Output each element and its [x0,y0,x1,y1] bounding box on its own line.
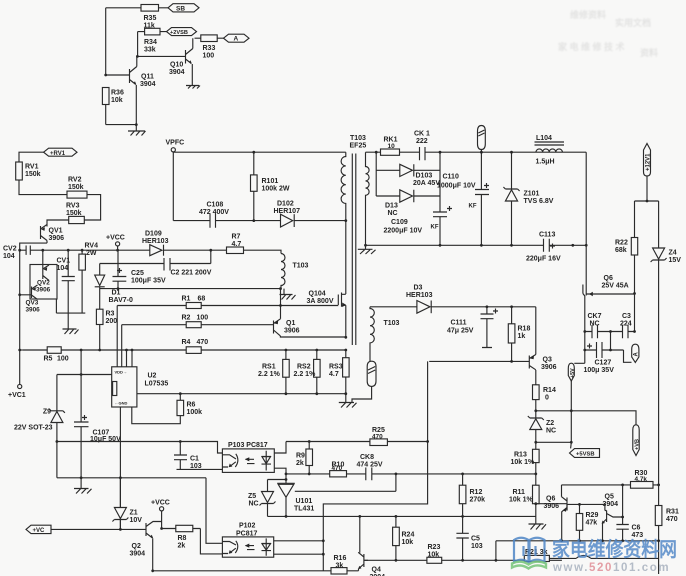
svg-text:P102: P102 [239,523,255,530]
svg-text:+VC: +VC [33,528,46,534]
zener Z2 [535,411,537,418]
box QV2/QV3 outline [30,265,57,300]
resistor R101 [253,152,255,220]
capacitor CV2 [20,246,43,255]
svg-text:+12V1: +12V1 [646,153,652,171]
svg-text:10k: 10k [402,539,414,546]
svg-text:R34: R34 [144,39,157,46]
svg-text:Q11: Q11 [141,74,154,81]
svg-text:Q10: Q10 [170,62,183,69]
svg-text:473: 473 [632,532,644,539]
svg-text:EF25: EF25 [350,143,367,150]
transistor Q4 [358,552,368,568]
svg-text:CV2: CV2 [3,246,17,253]
svg-text:10k 1%: 10k 1% [511,459,536,466]
svg-text:KF: KF [431,225,439,231]
svg-text:+5V: +5V [570,368,576,378]
svg-text:470: 470 [666,516,678,523]
capacitor CV1 [62,251,75,313]
svg-text:HER103: HER103 [406,292,433,299]
svg-text:VDD→: VDD→ [115,370,127,375]
wire Q104 gate to R1 row [281,305,339,307]
svg-text:Q1: Q1 [286,320,295,327]
resistor RV1 [16,162,23,180]
svg-text:D103: D103 [416,173,433,180]
resistor R22 [634,201,636,294]
capacitor C6 [616,525,628,541]
node +RV1 [44,148,77,156]
svg-text:C110: C110 [443,174,459,181]
winding T103 aux [281,254,285,289]
wire R30 row [562,484,659,486]
mosfet Q104 [338,221,346,338]
ground Q11 [128,131,146,136]
svg-text:R7: R7 [232,234,241,241]
resistor R35 [141,5,159,12]
svg-text:270k: 270k [470,497,486,504]
svg-text:C3: C3 [622,313,631,320]
ground C107 [80,478,82,488]
svg-text:C2 221 200V: C2 221 200V [171,270,212,277]
ground R11 [529,524,547,530]
svg-text:R18: R18 [518,326,531,333]
svg-text:47μ 25V: 47μ 25V [447,328,474,335]
svg-text:3k: 3k [336,563,344,570]
capacitor CK7 [585,325,611,338]
capacitor C25 [113,250,127,288]
svg-text:R6: R6 [187,402,196,409]
resistor R7 [211,250,281,253]
resistor R16 [153,570,359,572]
svg-text:R31: R31 [666,509,679,516]
core T103 [352,154,356,346]
svg-text:1k: 1k [518,333,526,340]
mosfet Q6 [583,245,635,295]
ground Q10 [186,86,200,89]
inductor L104 [536,149,562,152]
wire RV2 to RV3 [84,195,100,220]
wire QV box bottom [56,299,85,313]
svg-text:Z1: Z1 [130,510,138,517]
svg-text:R1: R1 [182,296,191,303]
svg-text:QV1: QV1 [49,228,63,235]
svg-text:Q6: Q6 [604,275,613,282]
svg-text:BAV7-0: BAV7-0 [109,297,133,304]
wire top-left vertical rail [105,8,107,75]
svg-text:22V SOT-23: 22V SOT-23 [14,425,53,432]
capacitor C2 [164,250,211,270]
svg-text:SB: SB [176,5,185,12]
wire QV1 to QV2 [42,250,44,266]
svg-text:3906: 3906 [284,328,300,335]
svg-text:RS2: RS2 [297,364,311,371]
wire R8 to P102 [200,529,222,554]
svg-text:R29: R29 [586,512,599,519]
wire RV1 to RV2 [19,180,67,195]
svg-text:33k: 33k [144,47,156,54]
node +VC1 terminal [18,384,22,388]
svg-text:1000μF 10V: 1000μF 10V [437,183,476,190]
wire R2 to U2 [121,325,123,367]
diode D102 [281,214,293,227]
svg-text:4.7: 4.7 [329,371,339,378]
resistor RV3 [69,216,85,223]
resistor R1 [117,305,280,307]
wire R21 row right [549,555,658,558]
svg-text:C108: C108 [207,202,224,209]
svg-text:4.7: 4.7 [232,241,242,248]
svg-text:KF: KF [469,204,477,210]
svg-text:NC: NC [546,428,556,435]
wire Q1 emitter to Q104 source [280,336,345,337]
transistor QV3 [20,285,38,300]
resistor R21 [495,541,497,561]
svg-text:2k: 2k [296,460,304,467]
node A [224,34,250,42]
resistor R2 [122,324,274,326]
wire U2 bottom pin left [119,407,121,529]
svg-text:104: 104 [3,253,15,260]
wire Q6 gate down [583,294,585,332]
winding T103 lower secondary [370,307,374,361]
svg-text:2k: 2k [178,543,186,550]
wire U2 pins to rail [127,350,133,367]
wire ground rail y478 [57,477,206,479]
wire C2 row to D1 [100,264,164,276]
capacitor C108 [210,214,216,228]
transistor Q5 [567,504,605,510]
resistor R30 [631,482,654,489]
svg-text:10k: 10k [428,552,440,559]
wire Q4 base row [364,559,562,561]
svg-text:+VB: +VB [635,439,641,450]
svg-text:www.520101.com: www.520101.com [552,562,670,574]
svg-text:100: 100 [57,356,69,363]
transistor Q10 [186,38,193,63]
svg-text:25V 45A: 25V 45A [602,283,629,290]
wire P102 right pins [274,541,324,554]
svg-text:D102: D102 [277,201,294,208]
svg-text:C1: C1 [190,456,199,463]
svg-text:Z9: Z9 [43,409,51,416]
svg-text:1.5μH: 1.5μH [536,159,555,166]
svg-text:3906: 3906 [544,503,560,510]
diode D13 [376,190,440,202]
pin capsule above C110 [478,126,486,150]
capacitor C109 [433,152,447,245]
wire emitter row to ground [106,124,137,126]
wire +5V column [570,381,572,442]
transistor Q6b [562,497,568,512]
svg-text:R101: R101 [262,178,279,185]
wire Q5 collector column [622,485,624,525]
svg-text:100μF 35V: 100μF 35V [131,278,166,285]
resistor R8 [160,527,163,530]
resistor R31 [658,485,660,574]
wire QV1 collector to left rail [20,243,47,384]
svg-text:C109: C109 [391,219,408,226]
svg-text:10: 10 [388,143,396,150]
svg-text:10k: 10k [111,97,123,104]
svg-text:Z4: Z4 [669,250,677,257]
resistor RS3 [343,358,350,377]
svg-text:R23: R23 [428,544,441,551]
transistor Q1 [274,319,281,336]
svg-text:U2: U2 [148,373,157,380]
node A capsule [624,350,632,362]
IC U2 L07535 [112,367,137,407]
capacitor CK8 [366,468,372,481]
svg-text:NC: NC [590,321,600,328]
resistor R29 [579,504,581,540]
resistor R12 [462,474,464,517]
svg-text:R36: R36 [111,90,124,97]
svg-text:实用文档: 实用文档 [615,17,651,28]
svg-text:T103: T103 [350,135,366,142]
svg-text:104: 104 [57,265,69,272]
wire R1 to U2 [116,306,118,367]
svg-text:R11: R11 [513,489,526,496]
svg-text:QV2: QV2 [37,280,50,287]
wire bottom-right rail [496,540,659,542]
wire Q1 collector column [280,289,282,319]
resistor R24 [395,516,397,560]
ground RS rail [339,403,357,408]
wire secondary top row [366,151,587,153]
diode D1 [95,275,105,285]
svg-text:10k 1%: 10k 1% [509,497,534,504]
svg-text:R33: R33 [203,45,216,52]
wire Z2 bottom row [536,441,572,443]
svg-text:R8: R8 [178,535,187,542]
resistor RV2 [67,191,87,198]
svg-text:68: 68 [198,296,206,303]
diode D109 [150,245,162,256]
wire VPFC top row [173,151,345,153]
wire right bend down [585,152,587,245]
wire R34 row [138,31,167,33]
svg-text:RV4: RV4 [85,243,99,250]
svg-text:3906: 3906 [26,307,41,314]
svg-text:T103: T103 [384,320,400,327]
capacitor C111 [486,305,489,308]
svg-text:CK7: CK7 [588,313,602,320]
shunt-reg U101 TL431 [277,474,295,483]
wire U2 bottom pin right to R6 [132,407,181,424]
wire R14 row to +VB [536,411,636,425]
svg-text:470: 470 [332,465,343,472]
svg-text:4.7k: 4.7k [635,476,648,483]
svg-text:+5VSB: +5VSB [576,452,595,458]
node +12V1 capsule [644,144,651,177]
ground secondary [364,244,367,247]
svg-text:2.2 1%: 2.2 1% [258,371,281,378]
zener Z5 [268,479,287,481]
svg-text:220μF 16V: 220μF 16V [526,256,561,263]
svg-text:+2VSB: +2VSB [170,30,188,36]
wire C108 row [173,220,345,222]
svg-text:100k: 100k [187,409,203,416]
wire VC row [51,528,142,530]
svg-text:150k: 150k [25,171,41,178]
svg-text:NC: NC [388,210,398,217]
svg-text:2200μF 10V: 2200μF 10V [384,228,423,235]
resistor R14 [535,370,537,411]
svg-text:L07535: L07535 [145,381,169,388]
svg-text:3904: 3904 [130,551,146,558]
zener Z4 [658,201,660,248]
svg-text:R3: R3 [106,311,115,318]
svg-text:R16: R16 [334,555,347,562]
svg-text:RS1: RS1 [262,364,276,371]
capacitor C5 [456,516,468,560]
svg-text:P103 PC817: P103 PC817 [228,442,268,449]
wire RS bottom rail [286,377,346,394]
svg-text:222: 222 [416,138,428,145]
node +2VSB [167,28,197,36]
capacitor CK1 [420,147,426,160]
wire RS tops [285,349,288,352]
capacitor C110 [475,152,489,245]
svg-text:HER103: HER103 [142,238,169,245]
svg-text:474 25V: 474 25V [357,462,383,469]
svg-text:Z2: Z2 [546,420,554,427]
svg-text:RS3: RS3 [329,364,343,371]
svg-text:RV1: RV1 [25,164,39,171]
svg-text:R14: R14 [543,387,556,394]
capacitor C107 [74,350,89,478]
svg-text:103: 103 [471,543,483,550]
resistor R34 [145,28,160,35]
svg-text:T103: T103 [293,263,309,270]
wire VCC row [43,249,211,251]
wire P103 feed row [57,442,223,454]
svg-text:Z101: Z101 [524,191,540,198]
svg-text:C6: C6 [632,525,641,532]
wire TL431 ref row [295,474,396,491]
wire stair from Q3 base [323,361,427,570]
svg-text:←GND: ←GND [115,401,128,406]
svg-text:R22: R22 [615,240,628,247]
wire feedback rail [286,473,536,475]
svg-text:VPFC: VPFC [166,140,185,147]
wire Q11/Q10 base row [137,55,186,57]
svg-text:3A 800V: 3A 800V [307,298,334,305]
svg-text:RV2: RV2 [68,177,82,184]
transistor QV2 [43,265,49,281]
svg-text:D109: D109 [145,231,162,238]
resistor R11 [535,474,537,524]
svg-text:R35: R35 [144,15,157,22]
svg-text:R24: R24 [402,532,415,539]
transistor Q2 [142,522,162,539]
svg-text:2.2 1%: 2.2 1% [294,371,317,378]
capacitor C113 [544,239,550,252]
transistor QV1 [41,225,48,244]
node +5V capsule [574,350,585,363]
svg-text:200: 200 [106,318,118,325]
wire rail down to P102 [206,478,222,544]
svg-text:68k: 68k [615,247,627,254]
wire D1 row [100,288,281,290]
diode D103 [376,164,440,176]
svg-text:CV1: CV1 [57,258,71,265]
wire rectifier bottom row [366,244,587,246]
resistor R3 [99,287,101,350]
svg-text:Q3: Q3 [543,357,552,364]
svg-text:100: 100 [197,315,209,322]
svg-text:C111: C111 [451,320,467,327]
wire Q2 emitter [152,538,154,571]
svg-text:2W: 2W [86,250,97,257]
wire RV3 to QV1 [47,220,69,227]
wire R34 to base row [137,32,139,57]
svg-text:+VCC: +VCC [106,235,125,242]
svg-text:A: A [234,36,239,43]
svg-text:U101: U101 [296,498,313,505]
svg-text:+VC1: +VC1 [8,392,26,399]
svg-text:R4: R4 [182,339,191,346]
resistor R9 [286,442,309,474]
svg-text:R12: R12 [470,489,483,496]
ground QV block [67,313,69,329]
svg-text:A: A [634,352,640,357]
resistor R36 [104,74,107,77]
svg-text:CK8: CK8 [360,454,374,461]
resistor R13 [535,442,537,474]
wire R35 row [106,7,168,9]
svg-text:15V: 15V [669,257,682,264]
svg-text:D3: D3 [414,285,423,292]
svg-text:3904: 3904 [603,501,619,508]
svg-text:Q6: Q6 [546,496,555,503]
svg-text:+RV1: +RV1 [50,151,66,157]
wire Q3 base row [429,360,529,362]
svg-text:3904: 3904 [140,81,156,88]
svg-text:维修资料: 维修资料 [570,9,606,20]
resistor R25 [309,441,427,443]
resistor R18 [511,307,513,362]
svg-text:470: 470 [197,339,209,346]
node +VC arrow [26,525,51,533]
svg-text:R2: R2 [182,315,191,322]
svg-text:224: 224 [620,321,632,328]
resistor RK1 [381,149,400,155]
svg-text:10V: 10V [130,517,143,524]
svg-text:472 400V: 472 400V [199,209,229,216]
resistor R33 [201,35,217,42]
svg-text:100: 100 [203,53,215,60]
svg-text:C5: C5 [471,536,480,543]
svg-text:D1: D1 [112,290,121,297]
svg-text:47k: 47k [586,520,598,527]
capacitor C1 [174,442,222,470]
winding T103 primary [341,152,346,220]
node SB [168,4,199,12]
svg-text:Q4: Q4 [372,567,381,574]
wire R4 rail [22,349,346,351]
svg-text:TL431: TL431 [294,506,314,513]
svg-text:R5: R5 [44,356,53,363]
wire R33 row [195,37,224,39]
svg-text:150k: 150k [66,210,82,217]
svg-text:+VCC: +VCC [151,500,170,507]
diode D3 [417,301,430,314]
resistor R5 [47,347,61,354]
resistor R10 [330,471,347,477]
wire R22 column to caps [634,294,636,332]
svg-text:103: 103 [190,463,202,470]
